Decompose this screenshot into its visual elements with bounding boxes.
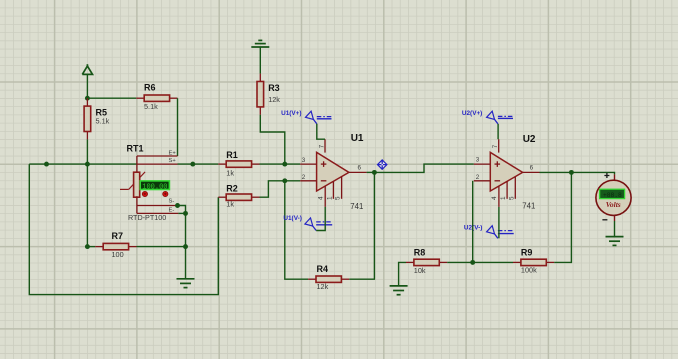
wire U2 pin2 down to feedback node (472, 181, 474, 263)
junction dot S+ line (x=193) (190, 162, 195, 167)
voltmeter (Volts) (596, 173, 631, 221)
wire R9 right up to output wire (554, 172, 571, 262)
wire ground to R3 (259, 47, 261, 74)
resistor R8 (406, 247, 447, 274)
svg-text:10k: 10k (414, 266, 426, 275)
junction dot R3/pin3 node (282, 162, 287, 167)
svg-text:6: 6 (358, 165, 362, 172)
junction dot feedback node (470, 260, 475, 265)
ground under RTD (177, 279, 195, 288)
wire R4 right up to U1 output node (349, 172, 374, 279)
svg-text:U2: U2 (523, 134, 536, 145)
svg-text:6: 6 (530, 164, 534, 171)
junction dot R7 left (85, 244, 90, 249)
wire R8 left to ground corner (399, 262, 406, 286)
RTD RT1 (RTD-PT100) (120, 144, 178, 223)
svg-text:100: 100 (112, 250, 124, 259)
resistor R7 (95, 231, 136, 259)
svg-text:R7: R7 (112, 231, 124, 241)
wire node to R6 (87, 97, 136, 99)
U2 pin 1 stub (500, 181, 507, 200)
svg-text:+88.8: +88.8 (603, 192, 622, 199)
junction dot pin2/R4 node (282, 178, 287, 183)
resistor R5 (84, 98, 110, 139)
svg-text:12k: 12k (268, 95, 280, 104)
svg-text:R2: R2 (226, 183, 238, 193)
wire U2(V+) to pin 7 (497, 124, 499, 139)
junction dot on S+ line (x=46) (44, 162, 49, 167)
svg-text:R4: R4 (317, 264, 329, 274)
svg-text:U1(V-): U1(V-) (283, 215, 301, 222)
svg-text:100.00: 100.00 (142, 183, 167, 191)
power terminal POWER (top-left, +V arrow) (82, 64, 92, 74)
svg-text:5: 5 (508, 196, 515, 200)
svg-text:E-: E- (169, 207, 175, 213)
U1 output wire to junction (367, 171, 375, 173)
wire pin 4 to U2(V-) (498, 207, 500, 238)
resistor R4 (308, 264, 349, 291)
junction dot E- node (183, 211, 188, 216)
wire to R7 (87, 246, 95, 248)
wire power arrow to node at R5 top (86, 74, 88, 98)
svg-text:S+: S+ (169, 158, 177, 164)
svg-text:1k: 1k (226, 200, 234, 209)
junction dot RTD return / R7 node (183, 244, 188, 249)
ground under R8 (390, 286, 408, 295)
wire U2 output to voltmeter (540, 172, 615, 174)
wire R8 to R9 (447, 261, 513, 263)
U2 pin 3 stub (474, 157, 491, 165)
wire U1 output to U2 pin3 (374, 164, 473, 172)
svg-text:2: 2 (476, 174, 480, 181)
svg-text:U1: U1 (351, 133, 364, 144)
svg-text:741: 741 (350, 202, 363, 211)
svg-text:741: 741 (522, 201, 535, 210)
U2 pin 6 output stub (523, 164, 540, 172)
ground under voltmeter (606, 237, 624, 246)
svg-text:E+: E+ (169, 150, 177, 156)
U2 pin 7 stub (492, 139, 499, 152)
svg-text:5.1k: 5.1k (96, 117, 110, 126)
wire U1(V+) to pin 7 (317, 124, 325, 139)
wire R1 to U1 pin3 (260, 163, 301, 165)
power label U2(V-) (464, 224, 514, 238)
svg-text:R3: R3 (268, 83, 280, 93)
svg-text:1: 1 (326, 196, 333, 200)
svg-text:Volts: Volts (606, 200, 621, 209)
svg-text:R9: R9 (521, 247, 533, 257)
origin marker (blue diamond) (378, 160, 387, 169)
svg-text:5.1k: 5.1k (144, 102, 158, 111)
wire S+ line left section (29, 163, 137, 165)
wire R3 bottom to pin3 node (260, 115, 285, 164)
resistor R1 (218, 150, 259, 178)
wire E- to return node (178, 212, 185, 214)
wire S+ line right section to R1 (178, 163, 219, 165)
svg-text:U2(V+): U2(V+) (462, 110, 482, 117)
wire return node down to ground (185, 213, 187, 278)
svg-text:1k: 1k (226, 169, 234, 178)
svg-text:S-: S- (169, 199, 175, 205)
op-amp U1 (741) (317, 133, 364, 211)
resistor R6 (136, 83, 177, 112)
wire R6 right down to RTD pin E+ (177, 98, 179, 156)
U1 pin 1 stub (326, 181, 333, 200)
U1 pin 6 output stub (349, 165, 367, 173)
junction dot output/voltmeter node (569, 170, 574, 175)
svg-text:U1(V+): U1(V+) (281, 110, 301, 117)
wire R5 bottom to S+ line (86, 139, 88, 164)
U2 pin 5 stub (508, 177, 515, 200)
U2 pin 2 stub (474, 174, 491, 181)
ground above R3 (flipped) (251, 40, 269, 47)
wire R5-node down to R7 (86, 164, 88, 247)
wire pin2 node down to R4 (285, 181, 308, 279)
junction dot R5/R6 node (85, 96, 90, 101)
svg-text:4: 4 (491, 196, 498, 200)
svg-text:1: 1 (500, 196, 507, 200)
svg-text:7: 7 (318, 144, 325, 148)
svg-text:5: 5 (335, 196, 342, 200)
svg-text:3: 3 (476, 157, 480, 164)
junction dot U1 output node (372, 170, 377, 175)
wire voltmeter to ground (614, 221, 616, 237)
svg-text:RT1: RT1 (127, 144, 144, 154)
wire S- jog to return wire (178, 206, 186, 214)
junction dot R5 bottom on S+ line (85, 162, 90, 167)
svg-text:R8: R8 (414, 247, 426, 257)
U1 pin 7 stub (318, 139, 325, 152)
svg-text:7: 7 (492, 144, 499, 148)
power label U1(V-) (283, 215, 332, 230)
svg-text:3: 3 (302, 157, 306, 164)
resistor R3 (257, 74, 280, 115)
wire pin 4 to U1(V-) (316, 207, 325, 231)
U1 pin 3 stub (300, 157, 316, 164)
wire R7 right to ground node (137, 246, 186, 248)
wire left loop down and along bottom to R2 (29, 164, 218, 295)
junction dot S- to return jog (175, 203, 180, 208)
op-amp U2 (741) (490, 134, 536, 210)
U1 pin 4 stub (318, 186, 326, 207)
U1 pin 2 stub (300, 174, 316, 181)
wire R2 right up to pin2 line (260, 181, 301, 197)
resistor R2 (218, 183, 259, 208)
svg-text:2: 2 (302, 174, 306, 181)
svg-text:R1: R1 (226, 150, 238, 160)
resistor R9 (513, 247, 554, 274)
svg-text:RTD-PT100: RTD-PT100 (128, 213, 166, 222)
power label U2(V+) (462, 110, 513, 124)
svg-text:12k: 12k (317, 282, 329, 291)
power label U1(V+) (281, 110, 331, 124)
svg-text:R6: R6 (144, 83, 156, 93)
U2 pin 4 stub (491, 186, 499, 207)
svg-text:4: 4 (318, 196, 325, 200)
svg-text:100k: 100k (521, 266, 537, 275)
U1 pin 5 stub (335, 177, 342, 200)
